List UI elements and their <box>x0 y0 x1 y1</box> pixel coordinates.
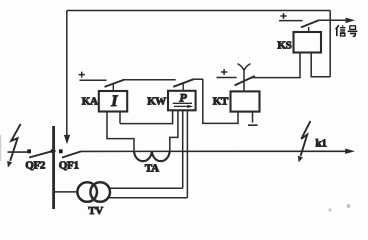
node plus terminal of KA contact <box>79 72 85 78</box>
trip arrowhead pointing at QF1 <box>64 135 70 144</box>
signal relay coil KS box <box>294 32 322 53</box>
wire TV upper secondary lead <box>109 187 183 189</box>
wire left border of trip loop <box>66 11 68 137</box>
breaker QF2 closed square <box>27 149 31 153</box>
wire busbar to TV <box>53 191 77 193</box>
contact blade of KA <box>105 80 125 87</box>
power direction relay coil KW box <box>168 91 196 111</box>
wire KA contact to KW contact <box>124 79 176 81</box>
scan speckle 1 <box>328 208 331 211</box>
wire KT left pin to KW contact <box>203 79 238 124</box>
breaker QF2 blade <box>29 151 53 158</box>
contact blade of KS <box>301 20 319 27</box>
link tick KA contact to coil <box>112 84 114 91</box>
fault bolt k1 on feeder <box>301 121 311 156</box>
svg-text:TA: TA <box>145 162 159 174</box>
contact blade of KW <box>173 79 193 87</box>
fault bolt on left feeder <box>10 124 20 161</box>
wire KS right pin return <box>311 53 330 77</box>
node plus terminal of KT contact <box>221 69 227 75</box>
scan speckle 2 <box>347 204 351 208</box>
wire KW contact output <box>193 78 202 80</box>
svg-text:I: I <box>110 93 118 110</box>
wire TV lower secondary lead <box>108 197 187 199</box>
wire top border of trip loop <box>67 10 330 12</box>
time relay coil KT box <box>231 91 260 111</box>
wire signal output arrow <box>319 19 347 21</box>
wire KA to KW pin1 <box>120 110 173 123</box>
direction arrow inside KW <box>174 105 188 107</box>
time delay symbol on KT contact <box>238 64 251 92</box>
node busbar junction <box>51 149 56 154</box>
node plus terminal of KS contact <box>280 13 286 19</box>
wire protected feeder line with arrow <box>81 150 346 152</box>
wire KS left pin <box>252 53 300 78</box>
busbar <box>52 126 55 209</box>
svg-text:QF2: QF2 <box>25 159 46 171</box>
svg-text:KT: KT <box>213 95 229 107</box>
svg-text:P: P <box>179 91 187 105</box>
wire KA right pin <box>119 112 121 124</box>
link tick KS contact to coil <box>308 27 310 32</box>
wire KW pin2 to TA <box>170 110 178 151</box>
wire KS contact left terminal <box>279 20 303 22</box>
svg-text:KA: KA <box>82 95 98 107</box>
contact blade of KT (delayed) <box>235 76 255 85</box>
svg-text:QF1: QF1 <box>59 159 79 171</box>
svg-text:KS: KS <box>277 40 291 52</box>
svg-text:TV: TV <box>88 205 103 217</box>
voltage transformer TV primary circle <box>77 182 97 202</box>
breaker QF1 closed square <box>59 149 63 153</box>
node minus terminal under KT <box>248 124 258 126</box>
current relay coil KA box <box>99 91 127 112</box>
wire right border of trip loop <box>329 11 331 77</box>
wire KW pin4 to TV <box>186 110 188 197</box>
wire KA contact left terminal <box>80 79 107 81</box>
svg-text:KW: KW <box>147 95 166 107</box>
voltage transformer TV secondary circle <box>90 182 110 202</box>
wire KA left pin to TA <box>107 112 134 151</box>
link tick KW contact to coil <box>182 83 184 91</box>
label xinhao signal (hand drawn glyphs) <box>336 25 358 36</box>
breaker QF1 blade <box>62 151 81 157</box>
wire KT contact left terminal <box>217 77 237 79</box>
underline of P <box>173 102 192 104</box>
wire KW pin3 to TV <box>182 110 184 188</box>
svg-text:k1: k1 <box>316 137 327 149</box>
scan artifact left edge <box>0 135 1 161</box>
wire left feeder line <box>8 151 28 153</box>
current transformer TA winding <box>134 151 170 161</box>
wire KT right pin <box>252 112 254 123</box>
